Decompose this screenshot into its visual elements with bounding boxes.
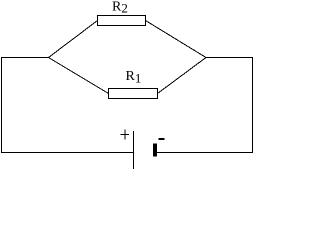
- battery positive plate: [133, 131, 135, 169]
- label +: [121, 130, 130, 140]
- wire top-right horizontal: [206, 57, 253, 59]
- svg-text:R2: R2: [112, 0, 128, 16]
- label -: [159, 138, 165, 140]
- wire top-left horizontal: [1, 57, 49, 59]
- wire diagonal left-down to R1: [49, 58, 109, 94]
- wire diagonal left-up to R2: [49, 21, 98, 58]
- wire diagonal R1 to right junction: [158, 58, 207, 94]
- wire bottom-right horizontal: [156, 152, 253, 154]
- svg-text:R1: R1: [126, 69, 142, 86]
- resistor R2: [98, 16, 146, 26]
- wire left vertical: [1, 57, 3, 153]
- wire diagonal R2 to right junction: [146, 21, 207, 58]
- battery negative plate: [153, 144, 157, 157]
- resistor R1: [109, 89, 158, 99]
- wire right vertical: [252, 57, 254, 153]
- wire bottom-left horizontal: [1, 152, 134, 154]
